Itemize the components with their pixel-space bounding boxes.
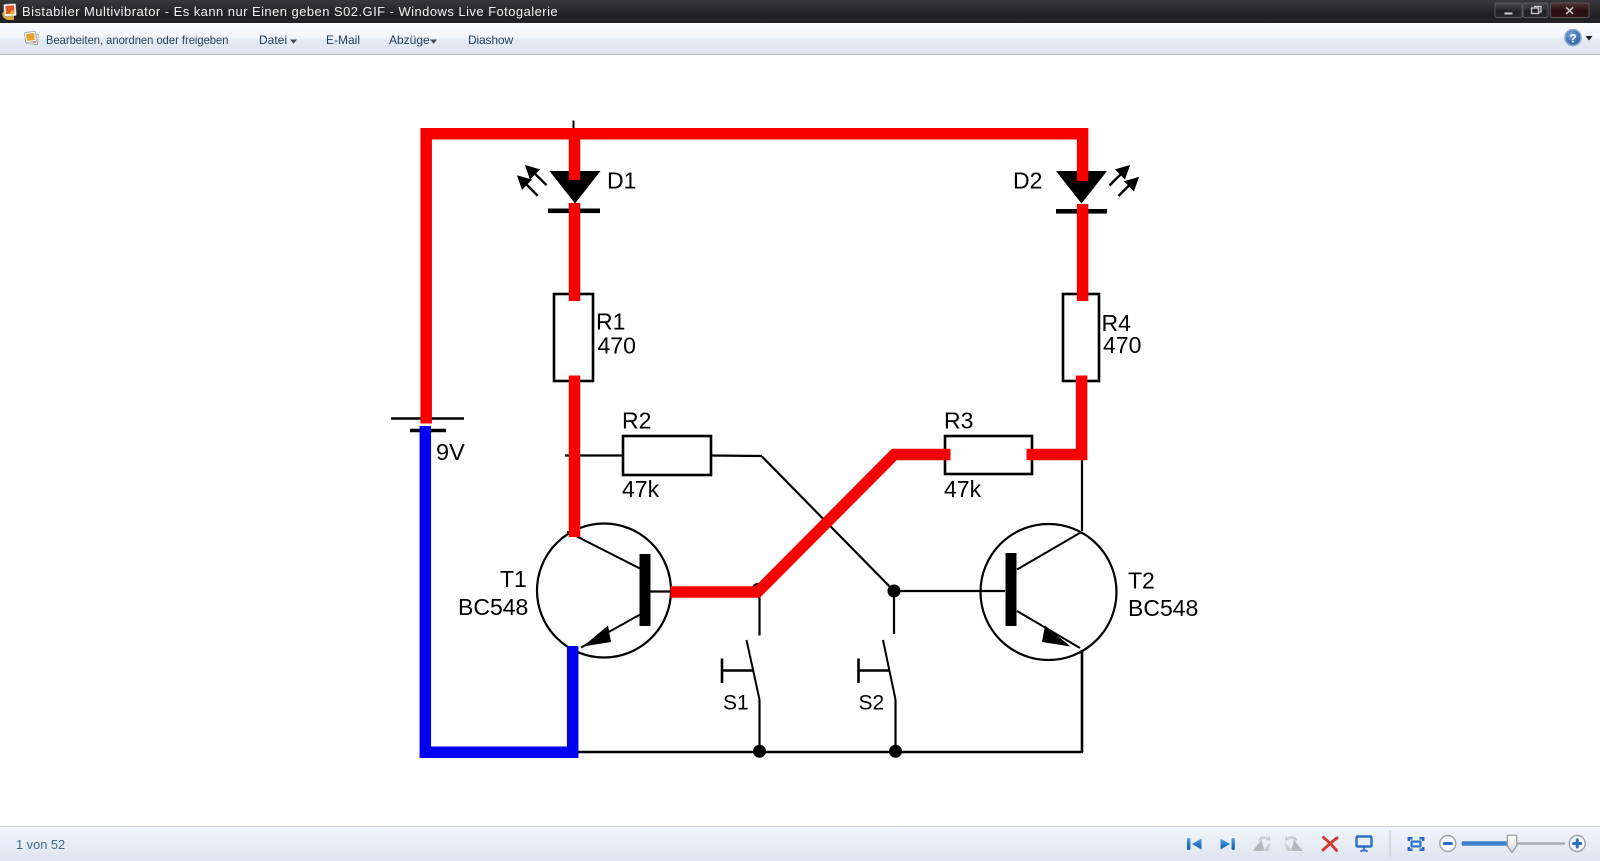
svg-text:R3: R3 bbox=[944, 408, 973, 434]
svg-text:47k: 47k bbox=[622, 476, 660, 502]
svg-text:T1: T1 bbox=[500, 566, 527, 592]
svg-text:S2: S2 bbox=[859, 692, 885, 715]
svg-text:R2: R2 bbox=[622, 408, 651, 434]
svg-text:S1: S1 bbox=[723, 692, 749, 715]
svg-text:R1: R1 bbox=[596, 309, 625, 335]
svg-text:D1: D1 bbox=[607, 168, 636, 194]
svg-text:470: 470 bbox=[1103, 332, 1141, 358]
svg-text:D2: D2 bbox=[1013, 168, 1042, 194]
svg-text:BC548: BC548 bbox=[458, 594, 528, 620]
svg-text:470: 470 bbox=[598, 333, 636, 359]
svg-text:47k: 47k bbox=[944, 476, 982, 502]
svg-text:9V: 9V bbox=[436, 439, 465, 465]
svg-text:BC548: BC548 bbox=[1128, 595, 1198, 621]
svg-text:T2: T2 bbox=[1128, 568, 1155, 594]
